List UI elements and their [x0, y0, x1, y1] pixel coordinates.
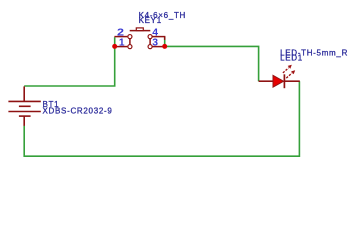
- junction dot at switch pins 1-2: [112, 44, 117, 49]
- left contact post: [129, 39, 131, 45]
- wire: switch pin1/pin2 rail down-left to battery top: [24, 37, 115, 86]
- pin 1 lead: [114, 46, 127, 48]
- svg-text:1: 1: [119, 38, 125, 49]
- pin 3 lead: [152, 46, 165, 48]
- LED LED1 symbol: [259, 65, 300, 88]
- pin 4 contact circle: [148, 35, 152, 39]
- battery plate long 1: [8, 100, 40, 102]
- junction dot at switch pins 3-4: [162, 44, 167, 49]
- actuator bump: [136, 28, 143, 31]
- wire: switch pin3/pin4 rail right then down to LED anode: [165, 37, 259, 81]
- battery BT1 symbol: [8, 86, 40, 126]
- pin 2 contact circle: [128, 35, 132, 39]
- pin 4 lead: [152, 36, 165, 38]
- battery bottom pin lead: [23, 116, 25, 126]
- pushbutton KEY1 symbol: [114, 31, 165, 47]
- LED triangle: [273, 75, 284, 87]
- pin 4 corner stub: [164, 37, 166, 40]
- pin 1 contact circle: [128, 45, 132, 49]
- LED cathode bar: [283, 74, 285, 88]
- pin 2 lead: [114, 36, 127, 38]
- svg-text:LED1: LED1: [280, 54, 303, 63]
- LED emission arrow lower-right: [286, 70, 295, 78]
- wire: battery bottom down, along bottom, up to LED cathode: [24, 81, 299, 156]
- battery plate long 3: [8, 111, 40, 113]
- battery top pin lead: [23, 86, 25, 101]
- right contact post: [149, 39, 151, 45]
- LED emission arrow upper-left: [283, 65, 292, 73]
- LED anode lead: [259, 80, 273, 82]
- svg-text:3: 3: [152, 38, 158, 49]
- battery plate short 4: [19, 115, 31, 117]
- LED cathode lead: [284, 80, 299, 82]
- actuator bar: [130, 30, 151, 32]
- pin 3 contact circle: [148, 45, 152, 49]
- svg-text:KEY1: KEY1: [139, 16, 162, 25]
- svg-text:XDBS-CR2032-9: XDBS-CR2032-9: [43, 107, 113, 116]
- battery plate short 2: [19, 105, 31, 107]
